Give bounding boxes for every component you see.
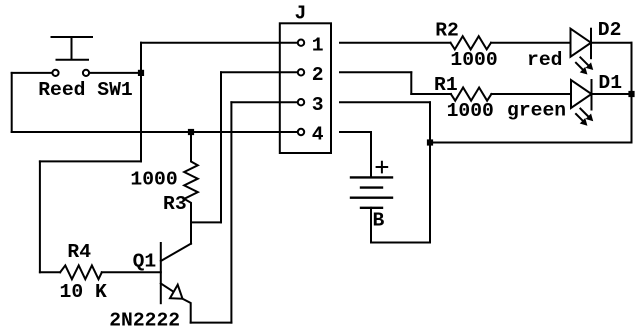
wire emitter return vertical: [230, 102, 232, 322]
svg-text:B: B: [373, 210, 385, 232]
wire collector vertical: [190, 222, 192, 243]
svg-text:3: 3: [312, 94, 324, 116]
LED D1 triangle: [571, 80, 592, 108]
svg-text:2N2222: 2N2222: [109, 310, 180, 332]
svg-text:R2: R2: [435, 20, 459, 42]
wire right rail vertical: [631, 43, 633, 143]
wire R1 to D1: [491, 93, 571, 95]
svg-text:1000: 1000: [130, 169, 177, 191]
reed switch SW1 contact right: [83, 70, 89, 76]
svg-text:D2: D2: [598, 19, 622, 41]
node R3 rail junction: [188, 129, 194, 135]
wire node down crossing rail: [140, 73, 142, 161]
wire emitter bottom: [191, 322, 232, 324]
battery B plus sign: [377, 162, 388, 173]
svg-text:R1: R1: [434, 74, 458, 96]
svg-text:2: 2: [312, 64, 324, 86]
node D1 right rail junction: [628, 91, 634, 97]
svg-text:10 K: 10 K: [60, 281, 107, 303]
wire right contact to node: [90, 72, 142, 74]
transistor Q1 collector diagonal: [161, 244, 191, 261]
wire emitter exit: [183, 299, 191, 323]
wire D1 to right rail: [592, 93, 632, 95]
battery B plate 2 short: [361, 186, 382, 188]
LED D2 arrow 1: [580, 57, 588, 65]
svg-text:1000: 1000: [447, 100, 494, 122]
svg-text:J: J: [295, 3, 307, 25]
svg-text:Reed SW1: Reed SW1: [38, 79, 133, 101]
resistor R2: [451, 36, 492, 49]
connector pin 4: [298, 129, 304, 135]
wire into R1: [411, 93, 451, 95]
wire pin 2 stub: [340, 71, 411, 73]
wire pin2 drop: [410, 72, 412, 94]
svg-text:red: red: [527, 49, 562, 71]
wire jog left: [40, 160, 141, 162]
wire pin3 drop: [429, 102, 431, 242]
svg-text:4: 4: [312, 124, 324, 146]
wire R4 to Q1 base: [102, 271, 161, 273]
wire pin4 drop to battery: [370, 132, 372, 177]
LED D1 arrow 1: [580, 109, 588, 117]
wire to pin 2: [221, 71, 298, 73]
transistor Q1 base bar: [160, 243, 162, 303]
LED D2 cathode bar: [590, 29, 592, 59]
svg-text:R4: R4: [67, 241, 91, 263]
wire pin2 vertical: [220, 72, 222, 222]
wire left vertical: [11, 73, 13, 132]
transistor Q1 emitter diagonal: [161, 283, 173, 291]
transistor Q1 emitter arrow: [170, 285, 183, 299]
reed switch SW1 contact left: [52, 70, 58, 76]
node reed/pin1 junction: [138, 70, 144, 76]
wire bottom right rail: [430, 142, 632, 144]
wire pin 1 stub to R2: [340, 42, 451, 44]
wire node up: [140, 43, 142, 73]
battery B plate 3 long: [351, 196, 392, 198]
wire bottom rail to pin 4: [12, 131, 298, 133]
battery B plate 1 long: [351, 176, 392, 178]
connector J box: [280, 23, 331, 153]
connector pin 2: [298, 69, 304, 75]
wire down to R4: [39, 161, 41, 272]
wire D2 to right rail: [591, 42, 632, 44]
wire into R4: [40, 271, 60, 273]
LED D2 arrow 2: [576, 63, 583, 70]
wire battery negative stem: [370, 208, 372, 243]
wire R2 to D2: [491, 42, 571, 44]
svg-text:1: 1: [312, 34, 324, 56]
resistor R1: [451, 88, 492, 101]
svg-text:R3: R3: [163, 193, 187, 215]
LED D1 arrow 2: [576, 114, 583, 121]
wire to pin 1: [141, 42, 298, 44]
reed switch SW1 plunger: [52, 37, 93, 60]
resistor R3: [184, 132, 198, 244]
wire pin 4 stub: [340, 131, 371, 133]
wire collector tee to pin2 line: [191, 221, 221, 223]
LED D1 cathode bar: [591, 80, 593, 110]
node pin3 rail junction: [427, 139, 433, 145]
wire battery bottom: [371, 242, 430, 244]
connector pin 3: [298, 99, 304, 105]
battery B plate 4 short: [361, 207, 382, 209]
svg-text:Q1: Q1: [133, 251, 157, 273]
connector pin 1: [298, 40, 304, 46]
wire left contact to left rail: [12, 72, 52, 74]
wire to pin 3: [231, 101, 297, 103]
svg-text:green: green: [507, 100, 566, 122]
svg-text:D1: D1: [598, 72, 622, 94]
resistor R4: [60, 265, 102, 279]
svg-text:1000: 1000: [450, 49, 497, 71]
LED D2 triangle: [571, 29, 592, 57]
wire pin 3 stub: [340, 101, 430, 103]
